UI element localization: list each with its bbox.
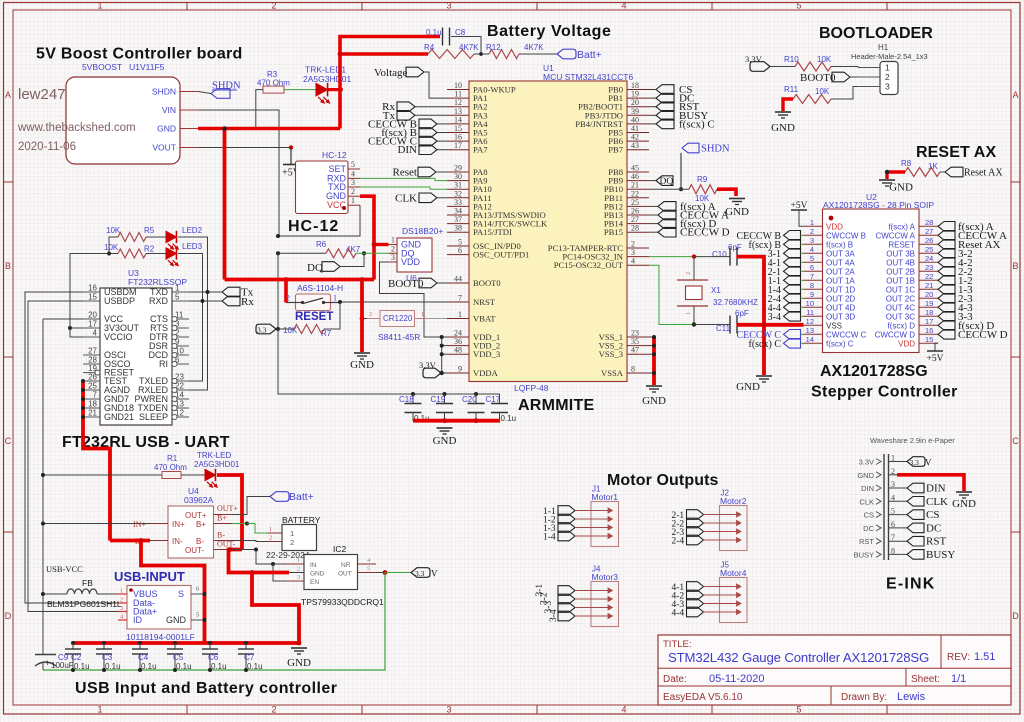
pin 1 TXD [172, 291, 189, 293]
pin 2 CR1220 [367, 318, 380, 320]
svg-text:1: 1 [685, 312, 692, 315]
svg-text:5: 5 [796, 705, 801, 715]
svg-text:2A5G3HD01: 2A5G3HD01 [194, 460, 240, 469]
pin 15 VDD [919, 342, 938, 344]
svg-text:OUT 1D: OUT 1D [826, 285, 855, 294]
pin 4 VCCIO [83, 336, 100, 338]
pin 1 VBAT [447, 318, 469, 320]
pin 30 PA9 [447, 180, 469, 182]
pin 3-2 J4 [558, 594, 575, 604]
svg-text:20: 20 [88, 311, 97, 320]
pin 1 H1 [858, 67, 880, 69]
pin 42 PB6 [627, 140, 649, 142]
pin 21 PB10 [627, 188, 649, 190]
svg-text:1: 1 [297, 557, 300, 564]
pin 6 S [191, 593, 205, 595]
wire VDDA [442, 372, 447, 374]
wire pin14 green [801, 342, 804, 344]
svg-text:GND: GND [287, 657, 311, 669]
svg-text:C11: C11 [716, 324, 731, 333]
svg-text:GND: GND [350, 359, 374, 371]
svg-text:21: 21 [88, 409, 97, 418]
svg-text:C6: C6 [208, 653, 219, 662]
svg-text:C8: C8 [455, 28, 466, 37]
capacitor C6 0.1u [208, 641, 212, 645]
pin 38 PA15/JTDI [447, 231, 469, 233]
pin 5 SET [348, 168, 360, 170]
wire battery top thick [340, 37, 440, 129]
junction gnd top [222, 126, 226, 130]
pin 14 PWREN [172, 398, 189, 400]
capacitor C9 100uF [42, 643, 44, 654]
pin 28 PB15 [627, 231, 649, 233]
junction xtal top [692, 254, 696, 258]
net flag 4-1 left [784, 258, 801, 268]
wire 3v3 vertical [277, 253, 279, 329]
net flag 4-4 left [784, 303, 801, 313]
svg-text:3.3V: 3.3V [859, 458, 874, 467]
svg-text:VDDA: VDDA [473, 368, 499, 378]
pin 8 OUT 1D [804, 288, 823, 290]
wire pin13 green [801, 333, 804, 335]
svg-text:03962A: 03962A [184, 495, 214, 505]
svg-text:lew247: lew247 [18, 86, 66, 103]
svg-text:6: 6 [458, 246, 462, 255]
svg-text:+: + [45, 658, 50, 668]
svg-text:OUT 3D: OUT 3D [826, 312, 855, 321]
svg-text:10K: 10K [815, 87, 830, 96]
junction U6 gnd [372, 242, 377, 247]
svg-text:21: 21 [925, 281, 933, 290]
junction FB [41, 592, 45, 596]
svg-text:2: 2 [391, 244, 395, 253]
svg-text:C19: C19 [431, 395, 446, 404]
svg-text:SHDN: SHDN [152, 87, 176, 97]
capacitor C3 0.1u [102, 641, 106, 645]
wire R11 gnd red [783, 99, 793, 111]
pin 17 PA7 [447, 149, 469, 151]
svg-text:OUT 4B: OUT 4B [886, 258, 915, 267]
net flag 2-1 left [784, 267, 801, 277]
pin 21 OUT 1C [919, 288, 938, 290]
wire left gnd horiz2 thick [225, 278, 254, 282]
junction IN- red [139, 538, 144, 543]
wire IN- red [110, 539, 150, 543]
svg-text:VCCIO: VCCIO [104, 332, 133, 342]
wire LED3 cathode [178, 254, 203, 382]
wire pin5 green [801, 261, 804, 263]
pin 1 VCC [348, 204, 360, 206]
pin 35 VSS_2 [627, 345, 649, 347]
svg-text:5: 5 [175, 293, 180, 302]
pin 13 PA3 [447, 114, 469, 116]
svg-text:D: D [5, 611, 12, 621]
pin 20 PB2/BOOT1 [627, 106, 649, 108]
svg-text:f(scx) D: f(scx) D [887, 321, 915, 330]
junction GND red [203, 618, 207, 622]
net flag 2-2 right [938, 267, 955, 277]
svg-text:12: 12 [806, 317, 814, 326]
pin 2-1 J2 [687, 510, 704, 520]
junction R6 right [362, 251, 366, 255]
junction bus gnd [297, 641, 302, 646]
svg-text:RI: RI [159, 359, 168, 369]
wire OUT+ Batt+ [232, 497, 270, 515]
pin 22 PB11 [627, 197, 649, 199]
capacitor C2 0.1u [71, 641, 75, 645]
svg-text:RESET AX: RESET AX [916, 144, 996, 161]
svg-text:Drawn By:: Drawn By: [841, 692, 887, 703]
wire R3 to LED green [284, 89, 316, 91]
svg-text:2: 2 [885, 72, 890, 82]
svg-text:1: 1 [885, 63, 890, 73]
svg-text:3.3: 3.3 [257, 326, 267, 335]
junction R6 left [276, 251, 280, 255]
wire R5R2 join [109, 237, 118, 254]
junction OUT- b [254, 548, 258, 552]
svg-text:2: 2 [810, 227, 814, 236]
wire e-ink gnd red [897, 475, 964, 491]
junction FT gnd [81, 406, 85, 410]
wire VCC down [43, 318, 83, 320]
svg-text:3-4: 3-4 [768, 312, 781, 323]
svg-text:10K: 10K [817, 55, 832, 64]
wire C11 red to VSS U2 [737, 323, 804, 327]
svg-text:BOOTLOADER: BOOTLOADER [819, 25, 933, 42]
svg-text:OUT 3B: OUT 3B [886, 249, 915, 258]
pin 6 OSC_OUT/PD1 [447, 254, 469, 256]
svg-text:48: 48 [454, 346, 462, 355]
wire LED to red [328, 88, 341, 91]
net flag DIN e-ink [907, 483, 924, 493]
svg-text:0.1u: 0.1u [176, 662, 192, 671]
svg-text:27: 27 [88, 347, 97, 356]
svg-text:DIN: DIN [397, 144, 417, 156]
wire TRKLED red [217, 475, 242, 550]
svg-text:A: A [5, 90, 11, 100]
pin 4 PC15-OSC32_OUT [627, 264, 649, 266]
svg-text:C7: C7 [244, 653, 255, 662]
wire R4-R12 [474, 53, 489, 55]
pin 22 RXLED [172, 389, 189, 391]
svg-text:1: 1 [97, 1, 102, 11]
pin OUT- [214, 549, 233, 551]
pin 18 OUT 3C [919, 315, 938, 317]
svg-text:Header-Male-2.54_1x3: Header-Male-2.54_1x3 [851, 52, 928, 61]
pin 19 RESET [83, 372, 100, 374]
net flag RST [649, 106, 656, 108]
svg-text:OUT 4D: OUT 4D [826, 303, 855, 312]
net flag f(scx) A [649, 205, 658, 207]
svg-text:2: 2 [351, 187, 355, 196]
wire switch to NRST [340, 301, 447, 303]
svg-text:14: 14 [806, 335, 814, 344]
svg-text:GND: GND [952, 498, 976, 510]
svg-text:OUT 3C: OUT 3C [886, 312, 915, 321]
svg-text:H1: H1 [878, 43, 889, 52]
svg-text:24: 24 [925, 254, 933, 263]
junction c11 red [762, 322, 767, 327]
pin 9 DSR [172, 345, 189, 347]
junction LED red [338, 87, 343, 92]
pin 13 CWCCW C [804, 333, 823, 335]
svg-text:1: 1 [120, 588, 123, 595]
pin 16 USBDM [83, 291, 100, 293]
wire EN loop [273, 564, 286, 581]
wire R3 left [256, 90, 263, 129]
wire pin10 green [801, 306, 804, 308]
svg-text:CR1220: CR1220 [383, 314, 413, 323]
net flag 3-4 left [784, 312, 801, 322]
wire VDD stub [442, 345, 447, 347]
svg-text:1: 1 [391, 236, 395, 245]
svg-text:S: S [178, 589, 184, 599]
junction CR1220 red [360, 316, 365, 321]
pin 11 CTS [172, 318, 189, 320]
net flag 3-2 right [938, 249, 955, 259]
wire OUT- black [232, 550, 286, 565]
svg-text:STM32L432 Gauge Controller AX1: STM32L432 Gauge Controller AX1201728SG [668, 650, 929, 665]
net flag 2-4 left [784, 294, 801, 304]
svg-text:Date:: Date: [663, 674, 687, 685]
pin 2 Data- [118, 602, 127, 604]
wire left gnd vertical thick [223, 129, 227, 280]
svg-text:LQFP-48: LQFP-48 [514, 383, 549, 393]
pin 5 GND [191, 619, 205, 621]
pin 3 RTS [172, 327, 189, 329]
wire pin3 green [801, 243, 804, 245]
pin 33 PA12 [447, 205, 469, 207]
net flag CLK e-ink [907, 497, 924, 507]
wire xtal top stub [693, 257, 695, 280]
svg-text:RST: RST [926, 536, 946, 548]
svg-text:4: 4 [93, 329, 98, 338]
svg-text:100uF: 100uF [51, 661, 74, 670]
svg-text:Motor3: Motor3 [592, 572, 619, 582]
svg-text:7: 7 [93, 391, 98, 400]
pin 23 OUT 2B [919, 270, 938, 272]
svg-text:BUSY: BUSY [926, 549, 955, 561]
pin 5 RXD [172, 300, 189, 302]
svg-text:ARMMITE: ARMMITE [518, 397, 594, 414]
battery CR1220 [380, 311, 415, 327]
svg-text:SHDN: SHDN [701, 144, 730, 155]
wire R11 to H1 pin3 [831, 87, 858, 100]
svg-text:CWCCW A: CWCCW A [875, 231, 915, 240]
pin 47 VSS_3 [627, 353, 649, 355]
svg-text:C: C [1012, 436, 1019, 446]
pin 16 PA6 [447, 140, 469, 142]
svg-text:DC: DC [863, 524, 874, 533]
svg-text:Motor1: Motor1 [592, 492, 619, 502]
net flag f(scx) D right [938, 321, 955, 331]
junction switch R7 [338, 300, 342, 304]
svg-text:EN: EN [310, 579, 319, 586]
net flag Batt+ [557, 49, 576, 59]
svg-text:5: 5 [351, 160, 355, 169]
svg-text:OUT 2A: OUT 2A [826, 267, 855, 276]
svg-text:3.3: 3.3 [415, 569, 425, 578]
wire USBDM long [25, 292, 118, 603]
svg-text:OUT 3A: OUT 3A [826, 249, 855, 258]
pin 37 PA14/JTCK/SWCLK [447, 223, 469, 225]
net flag CECCW D right [938, 330, 955, 340]
junction FT gnd [81, 397, 85, 401]
net flag 3.3V left [256, 324, 276, 334]
connector USB 10118194-0001LF [127, 586, 191, 630]
pin 2 IC2 left [286, 572, 304, 574]
svg-text:C17: C17 [486, 395, 501, 404]
svg-text:OUT 4A: OUT 4A [826, 258, 855, 267]
svg-text:1/1: 1/1 [951, 673, 966, 685]
junction OUT [383, 570, 388, 575]
svg-text:GND21: GND21 [104, 412, 134, 422]
net flag 1-3 right [938, 285, 955, 295]
wire pin4 green [801, 252, 804, 254]
svg-text:1: 1 [269, 526, 272, 533]
net flag Reset AX top [940, 171, 945, 173]
svg-text:R9: R9 [697, 175, 708, 184]
svg-text:VIN: VIN [162, 105, 176, 115]
svg-text:CECCW D: CECCW D [680, 227, 730, 239]
capacitor C17 0.1u [499, 394, 501, 404]
svg-text:IN: IN [310, 562, 317, 569]
svg-text:1: 1 [333, 294, 337, 303]
wire PC15 green [649, 265, 694, 324]
ground mid [354, 352, 370, 354]
junction VDD [440, 344, 444, 348]
pin 9 VDDA [447, 372, 469, 374]
svg-text:DS18B20+: DS18B20+ [402, 226, 443, 236]
wire R7 up [324, 302, 340, 329]
wire B- to battery [232, 541, 268, 542]
svg-text:A: A [1012, 90, 1018, 100]
pin 1-1 J1 [558, 506, 575, 516]
wire DQ flag up [340, 253, 364, 266]
wire R9 to gnd thick [717, 189, 736, 196]
wire B+ join [232, 523, 247, 525]
wire mid gnd horizontal thick [252, 278, 374, 282]
svg-text:www.thebackshed.com: www.thebackshed.com [17, 122, 136, 134]
wire OUT 3.3V [376, 572, 385, 574]
net flag DQ bubble PB9 [649, 180, 656, 182]
wire R4 feed thick [340, 52, 428, 56]
junction xtal bottom [692, 322, 696, 326]
net flag CECCW C left [784, 330, 801, 340]
svg-text:Reset: Reset [393, 167, 417, 179]
pin 2 DTR [172, 336, 189, 338]
svg-text:B+: B+ [196, 520, 206, 529]
junction FT gnd [81, 388, 85, 392]
wire BOOT0 flag [437, 282, 447, 284]
pin 17 f(scx) D [919, 324, 938, 326]
svg-text:6: 6 [810, 263, 814, 272]
svg-text:Rx: Rx [241, 296, 254, 308]
pin 4-1 J5 [687, 582, 704, 592]
wire PB10 to R9 [649, 188, 689, 190]
svg-text:BLM31PG601SH1L: BLM31PG601SH1L [47, 599, 122, 609]
svg-text:CS: CS [864, 511, 874, 520]
svg-text:1: 1 [351, 196, 355, 205]
pin OUT+ [214, 514, 233, 516]
pin 3 VDD [389, 261, 398, 263]
svg-text:CWCCW C: CWCCW C [826, 330, 867, 339]
wire 3V3OUT stub [70, 327, 83, 329]
wire 3v3 to R10 [770, 66, 795, 68]
svg-text:38: 38 [454, 224, 462, 233]
pin 1 VDD [804, 225, 823, 227]
capacitor C20 0.1u [474, 392, 478, 396]
svg-text:5: 5 [196, 612, 199, 619]
svg-text:3: 3 [446, 1, 451, 11]
svg-text:CLK: CLK [926, 496, 948, 508]
svg-text:3: 3 [885, 82, 890, 92]
pin 2 CWCCW B [804, 234, 823, 236]
pin 10 DCD [172, 354, 189, 356]
svg-text:IN+: IN+ [172, 520, 185, 529]
svg-text:BOOT0: BOOT0 [473, 278, 501, 288]
wire VSS stub [649, 353, 654, 355]
svg-text:IC2: IC2 [333, 544, 347, 554]
pin 23 TXLED [172, 380, 189, 382]
svg-text:OUT: OUT [338, 571, 352, 578]
svg-text:VDD_3: VDD_3 [473, 349, 500, 359]
pin B- [214, 540, 233, 542]
svg-text:8: 8 [810, 281, 814, 290]
net flag BUSY e-ink [907, 550, 924, 560]
junction reset red [284, 277, 289, 282]
svg-text:1-4: 1-4 [543, 533, 556, 543]
svg-text:C18: C18 [399, 395, 414, 404]
net flag CECCW A right [938, 231, 955, 241]
wire VDD stub [442, 353, 447, 355]
svg-text:17: 17 [454, 141, 462, 150]
pin 39 PB3/JTDO [627, 114, 649, 116]
pin 5 IC2 right [358, 572, 377, 574]
svg-text:3: 3 [446, 705, 451, 715]
capacitor C18 0.1u [411, 392, 415, 396]
svg-text:10: 10 [806, 299, 814, 308]
pin 4 ID [118, 619, 127, 621]
svg-text:2: 2 [290, 538, 294, 547]
svg-text:3: 3 [120, 605, 123, 612]
svg-text:GND: GND [857, 471, 874, 480]
svg-text:4-4: 4-4 [672, 609, 685, 619]
svg-text:A6S-1104-H: A6S-1104-H [297, 283, 343, 293]
net flag Batt+ mid [270, 492, 289, 502]
pin 27 OSCI [83, 354, 100, 356]
wire GND thick [198, 127, 340, 131]
svg-text:3: 3 [810, 236, 814, 245]
junction rxled [201, 299, 205, 303]
svg-text:2020-11-06: 2020-11-06 [18, 141, 76, 153]
svg-text:5: 5 [796, 1, 801, 11]
wire OUT- red jog [229, 550, 253, 573]
pin 2 battery [268, 541, 282, 543]
junction mid [360, 277, 365, 282]
wire C10 to gnd red [737, 257, 765, 375]
wire USBDP long [28, 301, 118, 612]
svg-text:0.1u: 0.1u [105, 662, 121, 671]
svg-text:LED2: LED2 [182, 226, 203, 235]
svg-text:NR: NR [341, 562, 351, 569]
wire HC12 GND thick [360, 196, 374, 279]
svg-text:PA7: PA7 [473, 145, 488, 155]
pin 3-3 J4 [558, 603, 575, 613]
svg-text:0.1u: 0.1u [247, 662, 263, 671]
svg-text:IN+: IN+ [133, 520, 146, 529]
svg-text:16: 16 [88, 284, 97, 293]
